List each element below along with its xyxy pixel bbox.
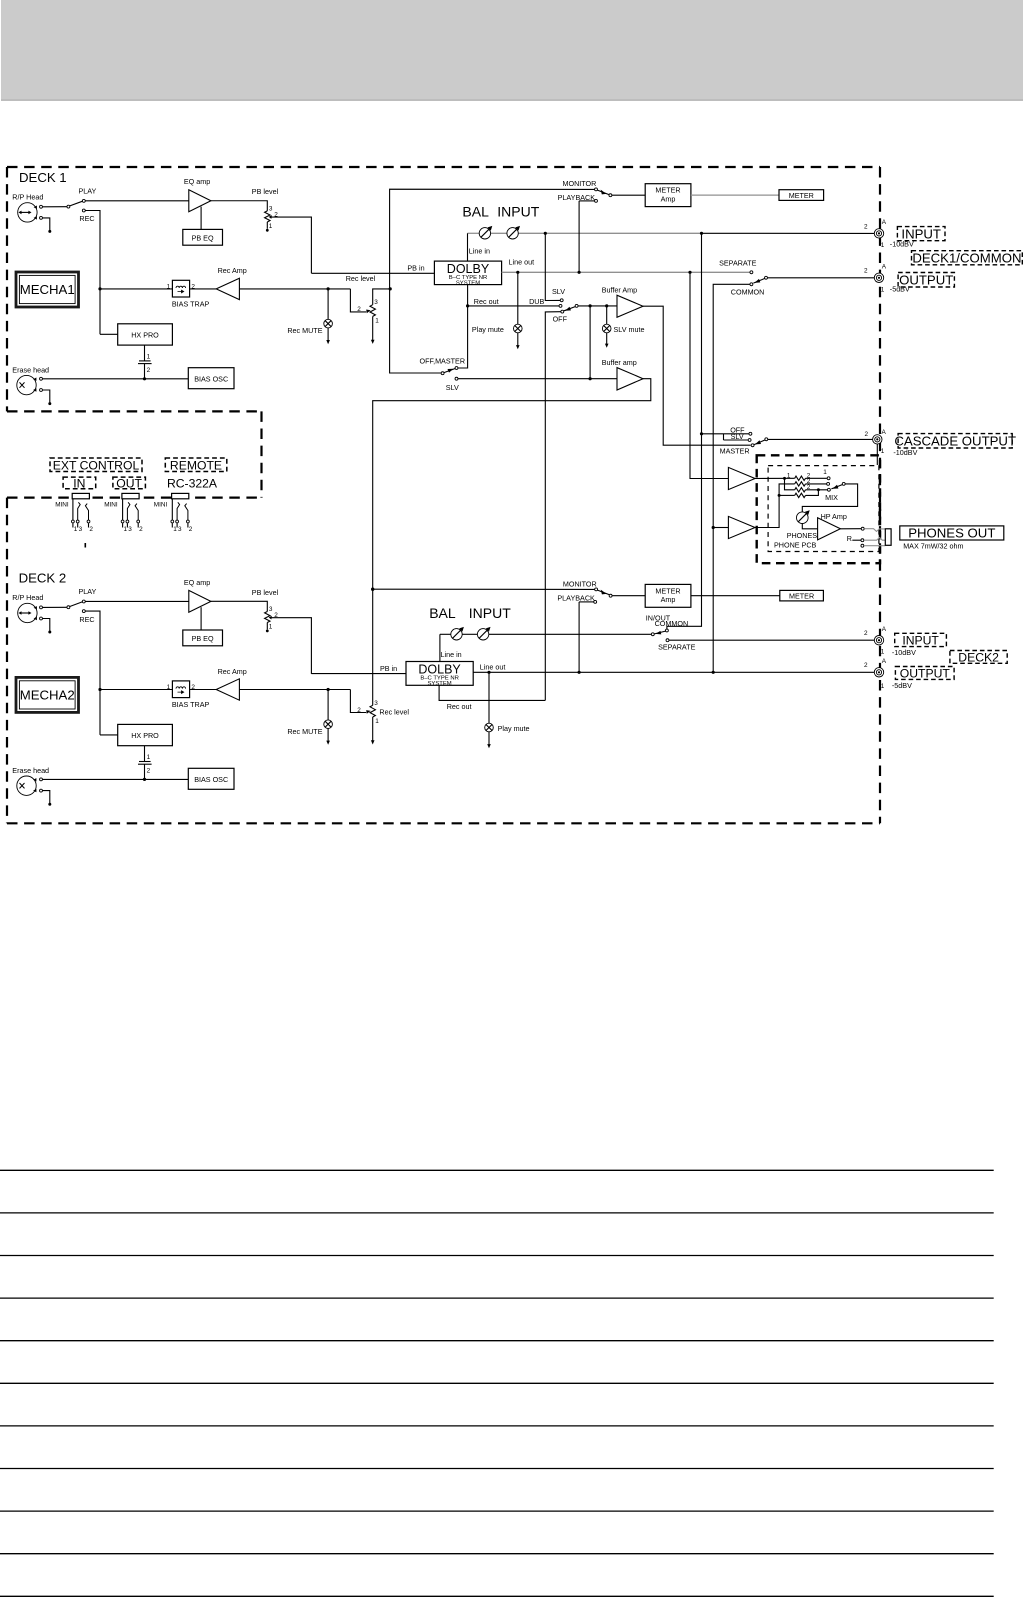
BAL INPUT pots deck2 bbox=[429, 605, 651, 640]
svg-text:-10dBV: -10dBV bbox=[892, 648, 916, 657]
svg-text:Amp: Amp bbox=[661, 194, 676, 203]
svg-text:OUT: OUT bbox=[116, 476, 142, 490]
buffer upper output to MASTER contact bbox=[643, 306, 751, 445]
svg-text:OUTPUT: OUTPUT bbox=[900, 666, 951, 680]
line-out bus deck2 to OUTPUT jack bbox=[473, 663, 874, 674]
DECK 1 left circuitry bbox=[12, 177, 379, 405]
CASCADE OUTPUT jack bbox=[865, 429, 918, 465]
svg-text:OFF,MASTER: OFF,MASTER bbox=[420, 356, 466, 365]
svg-text:MAX 7mW/32 ohm: MAX 7mW/32 ohm bbox=[903, 542, 963, 551]
OUTPUT jack deck1 bbox=[864, 263, 910, 293]
svg-text:SLV: SLV bbox=[446, 383, 459, 392]
wire meter amp to meter deck1 bbox=[691, 194, 779, 196]
wire PB pot to DOLBY PB in (deck1) bbox=[311, 272, 434, 274]
svg-text:METER: METER bbox=[655, 186, 680, 195]
phones buffer lower tap bbox=[712, 526, 729, 529]
Buffer Amp upper deck1 bbox=[602, 286, 643, 318]
svg-text:INPUT: INPUT bbox=[469, 605, 511, 621]
svg-text:Line out: Line out bbox=[509, 258, 535, 267]
svg-text:PB in: PB in bbox=[407, 263, 424, 272]
svg-text:SEPARATE: SEPARATE bbox=[658, 643, 695, 652]
MECHA1 box bbox=[16, 272, 79, 307]
svg-text:METER: METER bbox=[655, 586, 680, 595]
mix output to phones pot bbox=[802, 484, 857, 512]
slv line drop bbox=[589, 306, 591, 379]
REMOTE dashed label bbox=[165, 458, 227, 472]
svg-text:1: 1 bbox=[881, 242, 885, 249]
buffer lower output wrap wire to deck2 rec pot bbox=[371, 379, 651, 706]
Play mute deck1 bbox=[472, 272, 522, 349]
svg-text:SLV: SLV bbox=[552, 287, 565, 296]
MECHA2 box bbox=[16, 677, 79, 712]
mix resistor output wires bbox=[806, 478, 828, 495]
rec out wire deck1 bbox=[466, 285, 559, 308]
MONITOR/PLAYBACK switch deck1 bbox=[558, 179, 646, 202]
outer dashed frame deck1/deck2 bbox=[7, 167, 880, 823]
DUB/SLV/OFF switch deck1 bbox=[529, 287, 578, 324]
svg-text:DECK 2: DECK 2 bbox=[19, 570, 67, 585]
OUTPUT jack deck2 bbox=[864, 658, 912, 690]
MINI jack OUT bbox=[121, 493, 143, 532]
SLV contact deck1 bbox=[446, 377, 617, 392]
svg-text:1: 1 bbox=[881, 448, 885, 455]
svg-text:PLAYBACK: PLAYBACK bbox=[557, 593, 595, 602]
INPUT dashed label deck2 bbox=[895, 633, 947, 647]
cascade OFF/SLV/MASTER switch bbox=[720, 432, 768, 455]
svg-text:SLV mute: SLV mute bbox=[614, 325, 645, 334]
DECK1/COMMON dashed label bbox=[912, 250, 1023, 265]
svg-text:RC-322A: RC-322A bbox=[167, 476, 218, 490]
monitor bus deck1: OFF,MASTER pivot up to monitor wire bbox=[390, 189, 595, 373]
svg-text:MINI: MINI bbox=[104, 501, 118, 508]
INPUT jack deck1 bbox=[864, 219, 914, 249]
svg-text:Rec out: Rec out bbox=[474, 297, 499, 306]
MINI jack IN bbox=[72, 493, 94, 532]
METER box deck2 bbox=[780, 590, 824, 601]
line-in bus deck1 to INPUT jack bbox=[544, 232, 875, 235]
svg-text:Line in: Line in bbox=[469, 247, 490, 256]
mix resistors R1-R4 bbox=[787, 472, 811, 497]
METER Amp box deck1 bbox=[645, 184, 691, 207]
buffer feed wire deck1 bbox=[578, 304, 617, 307]
svg-text:METER: METER bbox=[789, 591, 814, 600]
rec level pot top stub to monitor bus (deck1) bbox=[373, 287, 392, 304]
PHONES OUT solid label bbox=[900, 526, 1004, 551]
svg-text:EXT CONTROL: EXT CONTROL bbox=[53, 458, 140, 472]
svg-text:INPUT: INPUT bbox=[902, 633, 939, 647]
svg-text:DOLBY: DOLBY bbox=[418, 662, 461, 676]
bottom ruled lines bbox=[0, 1170, 994, 1596]
svg-text:OUTPUT: OUTPUT bbox=[899, 272, 953, 287]
svg-text:PB in: PB in bbox=[380, 664, 397, 673]
svg-text:DECK1/COMMON: DECK1/COMMON bbox=[912, 250, 1021, 265]
line-out vertical bus x=690 to phones buffer bbox=[690, 272, 728, 478]
svg-text:DECK 1: DECK 1 bbox=[19, 170, 67, 185]
METER Amp box deck2 bbox=[645, 584, 691, 607]
svg-text:MONITOR: MONITOR bbox=[563, 580, 597, 589]
svg-text:SLV: SLV bbox=[731, 432, 744, 441]
svg-text:MECHA1: MECHA1 bbox=[20, 282, 75, 297]
mix resistor network input wires bbox=[755, 477, 795, 528]
METER box deck1 bbox=[779, 190, 824, 201]
MIX switch bbox=[823, 469, 845, 502]
Line in wire deck2 bbox=[440, 634, 462, 661]
svg-text:-5dBV: -5dBV bbox=[892, 681, 912, 690]
IN/OUT COMMON / SEPARATE switch deck2 bbox=[646, 613, 874, 651]
svg-text:2: 2 bbox=[864, 223, 868, 230]
svg-text:Buffer amp: Buffer amp bbox=[602, 358, 637, 367]
phones buffer lower bbox=[728, 516, 755, 538]
svg-text:2: 2 bbox=[864, 630, 868, 637]
svg-text:2: 2 bbox=[864, 268, 868, 275]
PHONES level pot bbox=[787, 510, 818, 540]
svg-text:1: 1 bbox=[823, 469, 827, 476]
svg-text:A: A bbox=[882, 263, 887, 270]
svg-text:MINI: MINI bbox=[55, 501, 69, 508]
IN dashed label bbox=[63, 476, 96, 490]
svg-text:A: A bbox=[882, 219, 887, 226]
svg-text:A: A bbox=[882, 658, 887, 665]
svg-text:MINI: MINI bbox=[154, 501, 168, 508]
svg-text:Rec level: Rec level bbox=[379, 707, 409, 716]
OUTPUT dashed label deck2 bbox=[895, 666, 954, 680]
svg-text:OFF: OFF bbox=[553, 315, 568, 324]
svg-text:R: R bbox=[847, 534, 852, 543]
svg-text:1: 1 bbox=[787, 472, 791, 479]
wire PB pot to DOLBY PB in (deck2) bbox=[311, 673, 405, 675]
svg-text:MECHA2: MECHA2 bbox=[20, 688, 75, 703]
svg-text:HP Amp: HP Amp bbox=[821, 512, 847, 521]
wire meter amp to meter deck2 bbox=[691, 595, 780, 597]
phones buffer upper bbox=[728, 467, 755, 489]
svg-text:IN: IN bbox=[73, 476, 85, 490]
svg-text:-10dBV: -10dBV bbox=[893, 448, 917, 457]
svg-text:Play mute: Play mute bbox=[472, 325, 504, 334]
svg-text:CASCADE OUTPUT: CASCADE OUTPUT bbox=[894, 433, 1016, 448]
svg-text:Play mute: Play mute bbox=[498, 724, 530, 733]
svg-text:INPUT: INPUT bbox=[901, 226, 941, 241]
OUT dashed label bbox=[113, 476, 145, 490]
svg-text:MASTER: MASTER bbox=[720, 446, 750, 455]
svg-text:DOLBY: DOLBY bbox=[447, 262, 490, 276]
MINI jack REMOTE bbox=[171, 493, 193, 532]
MONITOR/PLAYBACK switch deck2 bbox=[373, 580, 646, 604]
INPUT dashed label deck1 bbox=[897, 226, 945, 241]
svg-text:A: A bbox=[882, 626, 887, 633]
stray mark bbox=[85, 543, 87, 548]
phones out jack contacts bbox=[840, 527, 891, 547]
svg-text:REMOTE: REMOTE bbox=[170, 458, 222, 472]
svg-text:1: 1 bbox=[881, 649, 885, 656]
Buffer amp lower deck1 bbox=[602, 358, 643, 390]
svg-text:Buffer Amp: Buffer Amp bbox=[602, 286, 637, 295]
HP Amp bbox=[818, 512, 847, 540]
OFF,MASTER switch deck1 bbox=[420, 306, 468, 375]
svg-text:Line out: Line out bbox=[480, 663, 506, 672]
DOLBY NR box deck1 bbox=[434, 261, 501, 286]
svg-text:COMMON: COMMON bbox=[731, 287, 765, 296]
wire master switch to cascade jack bbox=[768, 438, 873, 440]
svg-text:2: 2 bbox=[864, 662, 868, 669]
cascade OFF/SLV bracket bbox=[702, 425, 749, 441]
line-in vertical bus x=701.5 bbox=[667, 233, 703, 629]
DOLBY NR box deck2 bbox=[406, 662, 473, 687]
svg-text:DECK2: DECK2 bbox=[958, 650, 999, 664]
svg-text:PHONES OUT: PHONES OUT bbox=[908, 526, 995, 541]
svg-text:2: 2 bbox=[865, 431, 869, 438]
Line in wire deck1 bbox=[468, 233, 490, 261]
INPUT jack deck2 bbox=[864, 626, 916, 657]
gray header band bbox=[1, 0, 1023, 100]
svg-text:1: 1 bbox=[881, 683, 885, 690]
svg-text:PHONES: PHONES bbox=[787, 531, 818, 540]
svg-text:DUB: DUB bbox=[529, 297, 544, 306]
SLV mute bbox=[602, 306, 644, 348]
playback tap deck1 bbox=[578, 201, 580, 272]
svg-text:SEPARATE: SEPARATE bbox=[719, 259, 756, 268]
svg-text:PHONE PCB: PHONE PCB bbox=[774, 541, 817, 550]
svg-text:1: 1 bbox=[881, 286, 885, 293]
svg-text:METER: METER bbox=[789, 191, 814, 200]
EXT CONTROL dashed label bbox=[50, 458, 142, 472]
svg-text:A: A bbox=[882, 429, 887, 436]
svg-text:COMMON: COMMON bbox=[655, 619, 689, 628]
svg-text:INPUT: INPUT bbox=[497, 204, 539, 220]
svg-text:Rec out: Rec out bbox=[447, 702, 472, 711]
CASCADE OUTPUT dashed label bbox=[894, 433, 1016, 448]
BAL INPUT pots deck1 bbox=[462, 204, 545, 240]
PHONE PCB inner dashed box bbox=[768, 466, 879, 552]
svg-text:MIX: MIX bbox=[825, 493, 838, 502]
playback tap deck2 bbox=[578, 602, 580, 672]
OUTPUT dashed label deck1 bbox=[898, 272, 954, 287]
svg-text:MONITOR: MONITOR bbox=[563, 179, 597, 188]
svg-text:Rec level: Rec level bbox=[346, 274, 376, 283]
PHONE PCB outer dashed box bbox=[757, 455, 880, 563]
rec out wire deck2 (to dub bus) bbox=[439, 685, 545, 711]
Play mute deck2 bbox=[485, 672, 530, 748]
dub bus lower (to deck2 rec out) bbox=[545, 312, 560, 701]
DECK 2 left circuitry bbox=[12, 578, 379, 806]
svg-text:Amp: Amp bbox=[661, 595, 676, 604]
SEPARATE/COMMON switch deck1 bbox=[713, 259, 874, 673]
svg-text:Line in: Line in bbox=[441, 650, 462, 659]
line-out bus deck1 bbox=[502, 258, 751, 274]
phones pot to HP amp bbox=[802, 524, 817, 529]
dub bus deck1 upper (line-in to SLV contact) bbox=[545, 233, 560, 300]
DECK2 dashed label bbox=[950, 650, 1007, 664]
svg-text:BAL: BAL bbox=[429, 605, 456, 621]
svg-text:BAL: BAL bbox=[462, 204, 489, 220]
